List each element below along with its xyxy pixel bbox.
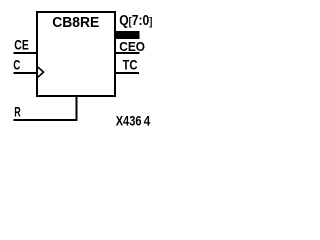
svg-text:Q[7:0]: Q[7:0] <box>119 12 152 28</box>
svg-text:CB8RE: CB8RE <box>52 15 99 31</box>
symbol body U1 (CB8RE counter outline) <box>37 12 115 96</box>
svg-text:CEO: CEO <box>119 39 145 54</box>
svg-text:CE: CE <box>14 37 28 53</box>
svg-text:X436: X436 <box>116 113 142 128</box>
wire C lead <box>13 72 37 74</box>
bus Q[7:0] thick lead <box>114 31 140 39</box>
wire CE lead <box>13 52 37 54</box>
clock chevron on C pin <box>38 67 44 77</box>
svg-text:4: 4 <box>144 114 151 129</box>
svg-text:TC: TC <box>123 58 138 73</box>
svg-text:C: C <box>13 57 20 73</box>
wire CEO lead <box>115 52 139 54</box>
svg-text:R: R <box>14 105 21 120</box>
wire R lead into box bottom <box>13 96 76 120</box>
wire TC lead <box>115 72 139 74</box>
